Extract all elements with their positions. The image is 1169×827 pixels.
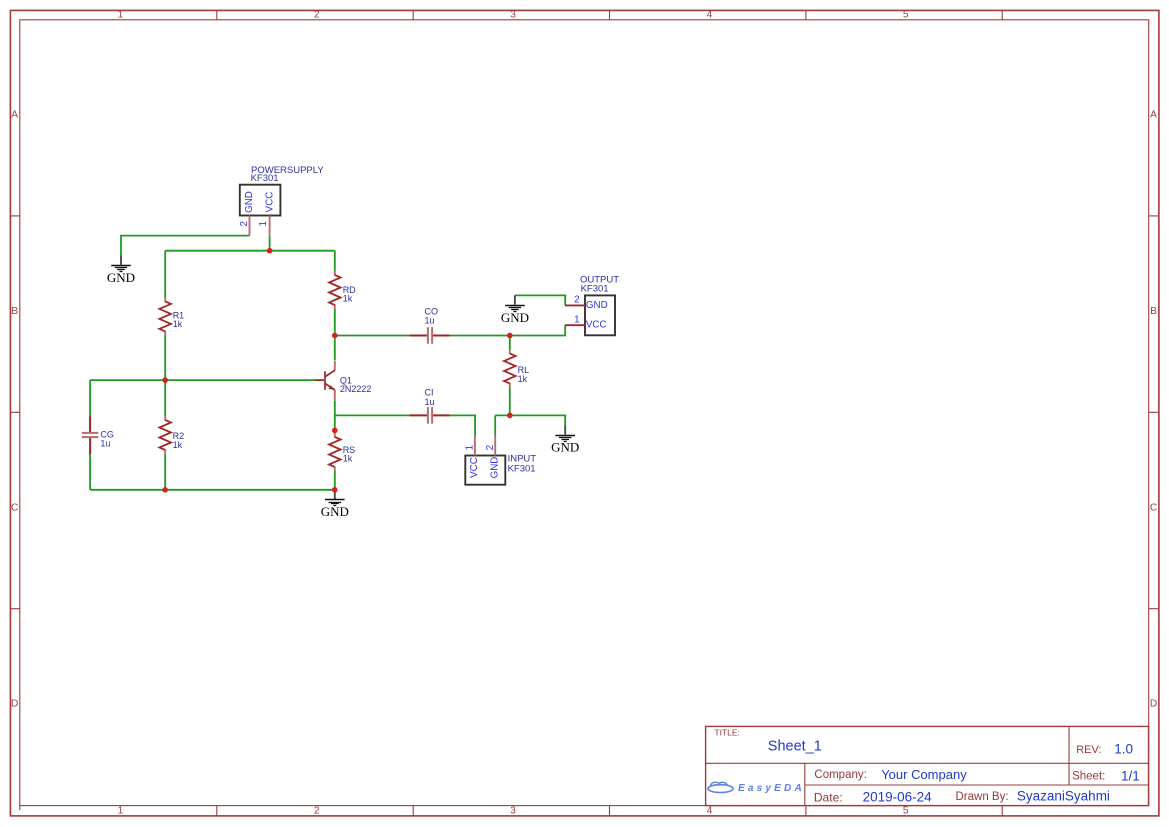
ground symbol (output) (501, 295, 529, 324)
svg-text:2: 2 (485, 445, 496, 450)
svg-text:2: 2 (239, 221, 250, 226)
POWERSUPPLY pin 2 (239, 216, 250, 236)
resistor R1 (1k) (159, 297, 184, 336)
svg-text:TITLE:: TITLE: (714, 728, 740, 738)
svg-text:2019-06-24: 2019-06-24 (863, 789, 933, 804)
wire: emitter to CI left (335, 414, 410, 416)
svg-text:1u: 1u (100, 438, 110, 448)
svg-text:Drawn By:: Drawn By: (956, 791, 1009, 803)
wire: POWERSUPPLY pin1 to VCC rail (269, 236, 271, 251)
svg-text:EasyEDA: EasyEDA (738, 783, 805, 794)
resistor RS (1k) (329, 433, 355, 472)
junction: input node / RL (507, 413, 513, 419)
svg-text:D: D (1150, 699, 1157, 710)
junction: output node / RL (507, 333, 513, 339)
resistor R2 (1k) (159, 416, 184, 455)
junction: R2 / bottom rail (162, 487, 168, 493)
connector INPUT KF301 (465, 454, 536, 485)
wire: CG bottom to bottom rail (89, 454, 91, 490)
junction: base node (162, 377, 168, 383)
svg-text:SyazaniSyahmi: SyazaniSyahmi (1017, 789, 1110, 804)
capacitor CG (1u) (82, 416, 114, 454)
connector OUTPUT KF301 (580, 275, 619, 336)
svg-text:1/1: 1/1 (1121, 768, 1140, 783)
wire: output node to OUTPUT pin1 (510, 325, 565, 335)
svg-text:VCC: VCC (264, 192, 275, 213)
ground symbol (power supply) (107, 256, 135, 285)
transistor Q1 (2N2222 NPN) (315, 361, 371, 400)
svg-text:5: 5 (903, 805, 909, 816)
wire: collector node to CO left (335, 335, 410, 337)
svg-text:5: 5 (903, 10, 909, 21)
svg-text:KF301: KF301 (581, 283, 609, 294)
capacitor CI (1u) (410, 388, 450, 424)
svg-text:GND: GND (244, 191, 255, 213)
ground symbol (emitter rail) (321, 490, 349, 519)
svg-text:1u: 1u (425, 316, 435, 326)
wire: rail to RD top (334, 251, 336, 271)
junction: VCC rail / pin1 (267, 248, 273, 254)
wire: POWERSUPPLY pin2 to GND (121, 236, 250, 256)
svg-text:1k: 1k (343, 294, 353, 304)
svg-text:Sheet:: Sheet: (1072, 770, 1105, 782)
wire: R1 bottom to base node (164, 335, 166, 380)
svg-text:A: A (11, 110, 18, 121)
svg-text:GND: GND (490, 457, 501, 479)
resistor RL (1k) (504, 349, 529, 388)
svg-text:1k: 1k (343, 454, 353, 464)
connector POWERSUPPLY KF301 (240, 165, 325, 216)
svg-text:1.0: 1.0 (1114, 741, 1133, 756)
svg-text:C: C (1150, 502, 1157, 513)
svg-text:2: 2 (574, 295, 579, 306)
svg-text:1: 1 (465, 445, 476, 450)
wire: input node to GND (495, 415, 565, 425)
wire: INPUT pin2 up (494, 415, 496, 436)
svg-text:C: C (11, 502, 18, 513)
svg-text:D: D (11, 699, 18, 710)
svg-text:REV:: REV: (1076, 744, 1101, 756)
wire: CI right to INPUT pin1 (449, 415, 475, 436)
wire: OUTPUT pin2 to GND (515, 295, 565, 305)
title block (706, 726, 1149, 805)
svg-text:4: 4 (707, 10, 713, 21)
wire: RL bottom to input node (509, 388, 511, 416)
svg-text:Company:: Company: (814, 769, 866, 781)
junction: collector node (332, 333, 338, 339)
POWERSUPPLY pin 1 (258, 216, 270, 236)
svg-text:2: 2 (314, 805, 320, 816)
svg-text:CI: CI (425, 388, 434, 398)
svg-text:A: A (1150, 110, 1157, 121)
svg-text:KF301: KF301 (251, 173, 279, 184)
wire: Q1 emitter down (334, 401, 336, 431)
svg-text:1: 1 (118, 805, 124, 816)
capacitor CO (1u) (410, 307, 450, 344)
ground symbol (input) (551, 425, 579, 454)
svg-text:GND: GND (501, 310, 529, 325)
svg-text:2N2222: 2N2222 (340, 384, 372, 394)
INPUT pin 1 (465, 436, 476, 456)
svg-text:1u: 1u (425, 397, 435, 407)
junction: emitter / RS (332, 428, 338, 434)
svg-text:1: 1 (574, 315, 579, 326)
wire: CO right to output node (449, 335, 510, 337)
svg-text:Your Company: Your Company (881, 767, 967, 782)
svg-text:GND: GND (551, 440, 579, 455)
wire: base node to R2 top (164, 380, 166, 416)
svg-text:GND: GND (586, 300, 608, 311)
OUTPUT pin 1 (565, 315, 585, 326)
svg-text:2: 2 (314, 10, 320, 21)
OUTPUT pin 2 (565, 295, 585, 306)
svg-text:Sheet_1: Sheet_1 (768, 738, 822, 754)
wire: R2 bottom to bottom rail (164, 454, 166, 490)
svg-text:GND: GND (321, 504, 349, 519)
svg-text:B: B (11, 306, 18, 317)
wire: base node to CG top (89, 380, 91, 416)
svg-text:KF301: KF301 (508, 464, 536, 475)
svg-text:3: 3 (510, 805, 516, 816)
svg-text:4: 4 (707, 805, 713, 816)
svg-text:VCC: VCC (586, 320, 607, 331)
svg-text:3: 3 (510, 10, 516, 21)
wire: RS bottom to rail (334, 471, 336, 490)
wire: collector node to Q1 collector (334, 336, 336, 361)
wire: RD bottom to collector node (334, 309, 336, 336)
wire: VCC rail (165, 250, 335, 252)
svg-text:1k: 1k (518, 374, 528, 384)
wire: bottom ground rail (90, 489, 335, 491)
svg-text:1k: 1k (173, 440, 183, 450)
EasyEDA logo (708, 782, 805, 794)
svg-text:1: 1 (118, 10, 124, 21)
svg-text:1k: 1k (173, 319, 183, 329)
INPUT pin 2 (485, 436, 496, 456)
svg-text:1: 1 (258, 221, 269, 226)
resistor RD (1k) (329, 271, 356, 310)
wire: output node to RL top (509, 336, 511, 350)
svg-text:VCC: VCC (469, 457, 480, 478)
svg-text:GND: GND (107, 270, 135, 285)
wire: base node horizontal (90, 379, 316, 381)
wire: rail to R1 top (164, 251, 166, 298)
svg-text:B: B (1150, 306, 1157, 317)
junction: RS / bottom rail (332, 487, 338, 493)
svg-text:Date:: Date: (814, 790, 843, 804)
